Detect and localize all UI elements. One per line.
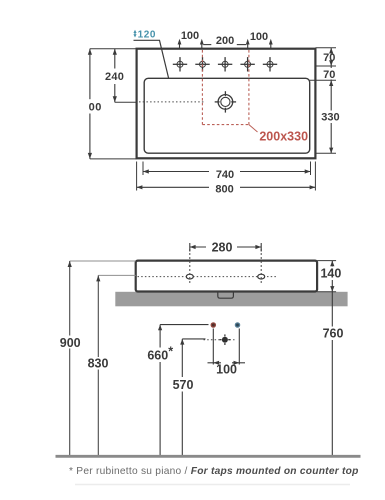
dimension 100 (supply spacing) — [208, 361, 246, 365]
extension lines 140 — [317, 260, 336, 262]
dimension 830 — [96, 275, 100, 456]
dimension line segments for 200 — [203, 44, 211, 46]
svg-text:760: 760 — [323, 327, 344, 341]
countertop band — [115, 292, 347, 307]
right vertical dimension line 140 / 760 — [331, 261, 333, 457]
svg-text:100: 100 — [250, 31, 268, 43]
svg-text:240: 240 — [105, 71, 124, 83]
svg-text:900: 900 — [60, 336, 81, 350]
basin inner bowl rectangle (plan) — [144, 78, 310, 153]
blue depth label 120 — [133, 30, 136, 38]
faint bottom rule — [75, 484, 350, 486]
dotted hole centerline (elevation) — [138, 276, 278, 278]
svg-text:*: * — [168, 345, 173, 359]
svg-text:660: 660 — [147, 349, 168, 363]
drain symbol (plan) — [215, 91, 236, 112]
basin outer rectangle (plan) — [137, 49, 316, 159]
extension 240 bottom to basin — [115, 101, 137, 103]
hot water supply dot (red) — [211, 323, 215, 327]
red leader line — [249, 125, 258, 132]
basin elevation rectangle — [136, 261, 317, 292]
svg-text:200: 200 — [216, 35, 234, 47]
svg-text:140: 140 — [320, 267, 341, 281]
extension line bottom-left — [90, 158, 137, 160]
drain tab below basin — [218, 292, 234, 299]
dimension 660* — [160, 324, 208, 326]
tap hole cross 5 — [263, 57, 277, 71]
hole ellipse left — [186, 274, 193, 279]
svg-text:70: 70 — [323, 69, 335, 81]
dimension 240 — [113, 49, 117, 103]
left gray extension lines — [70, 260, 136, 262]
dimension 740 — [143, 169, 311, 173]
svg-text:280: 280 — [212, 240, 233, 254]
svg-text:200x330: 200x330 — [259, 130, 308, 144]
red dashed zone rectangle 200x330 — [202, 50, 249, 125]
waste drain point — [204, 339, 235, 341]
tap hole cross 1 — [173, 57, 187, 71]
verticals below supply dots — [212, 329, 214, 365]
svg-text:570: 570 — [173, 378, 194, 392]
tap hole cross 3 — [218, 57, 232, 71]
floor line — [56, 455, 361, 458]
cold water supply dot (blue) — [235, 323, 239, 327]
svg-text:740: 740 — [216, 169, 234, 181]
top dimension arrows (hole spacing) — [180, 41, 271, 48]
svg-text:330: 330 — [321, 111, 339, 123]
right extension lines — [310, 48, 336, 154]
leader under 120 — [134, 40, 169, 78]
dimension 900 — [68, 261, 72, 456]
svg-text:120: 120 — [138, 29, 157, 40]
svg-text:70: 70 — [323, 52, 335, 64]
tap hole cross 2 — [195, 57, 209, 71]
svg-text:100: 100 — [216, 363, 237, 377]
left dimension 500 (clipped label 00) — [88, 49, 92, 159]
tap hole cross 4 — [240, 57, 254, 71]
dimension 280 — [190, 243, 261, 252]
dashed verticals from 280 dim to holes — [189, 249, 191, 285]
centerline dotted (plan) — [139, 101, 205, 103]
dimension 570 — [182, 338, 205, 340]
svg-text:* Per rubinetto su piano / For: * Per rubinetto su piano / For taps moun… — [69, 466, 359, 477]
ticks for 140 — [330, 261, 334, 292]
bottom extension lines (plan) — [137, 162, 316, 191]
extension line top-left — [90, 48, 137, 50]
svg-text:00: 00 — [89, 101, 102, 113]
hole ellipse right — [258, 274, 265, 279]
right tick arrows — [329, 48, 333, 154]
svg-text:100: 100 — [181, 30, 199, 42]
right dimension line (70/70/330) — [330, 48, 332, 154]
svg-text:830: 830 — [88, 357, 109, 371]
dimension 800 — [137, 185, 316, 189]
svg-text:800: 800 — [215, 183, 233, 195]
